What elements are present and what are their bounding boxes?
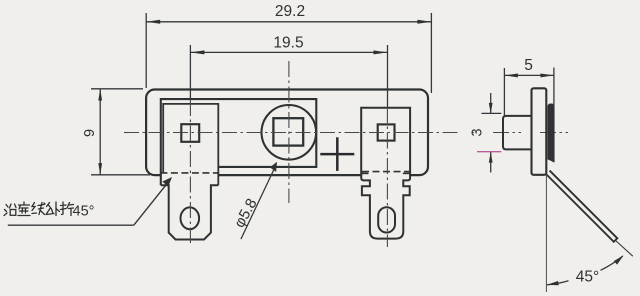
dimension 3 (482, 93, 502, 173)
svg-text:45°: 45° (73, 204, 95, 220)
dimension 29.2 (146, 13, 431, 93)
metal plate (front face) (161, 99, 316, 185)
bushing (503, 116, 532, 149)
side plate (532, 88, 547, 175)
svg-text:3: 3 (470, 128, 486, 136)
erase body bottom edge behind right tab (362, 172, 409, 178)
erase body bottom edge behind left bracket (162, 173, 218, 179)
vertical reference line (545, 175, 547, 292)
right tab oval hole (378, 207, 395, 232)
char: xian (32, 203, 45, 215)
dimension 19.5 (190, 45, 387, 107)
circle vertical center line (288, 61, 290, 203)
center circle (262, 105, 317, 160)
left bracket fold dashed line (160, 172, 219, 174)
plus polarity mark (320, 153, 354, 156)
left tab oval hole (181, 207, 200, 229)
tab direction extension line (616, 241, 633, 256)
right square hole (378, 124, 395, 140)
svg-text:5: 5 (524, 57, 533, 74)
body outline (front view plastic housing) (146, 90, 428, 176)
char: zhe (61, 202, 74, 216)
char: chu (46, 202, 60, 216)
right tab outline (361, 108, 410, 239)
note underline and leader (8, 224, 134, 226)
phi 5.8 leader (241, 166, 276, 239)
right tab vertical center line (386, 107, 388, 247)
svg-text:9: 9 (82, 129, 98, 137)
dimension 5 (504, 68, 554, 116)
center square hole (273, 118, 303, 145)
folded 45deg tab (547, 171, 618, 242)
char: xu (18, 202, 30, 216)
svg-text:45°: 45° (576, 269, 599, 286)
left tab vertical center line (189, 100, 191, 243)
svg-text:19.5: 19.5 (273, 35, 303, 52)
horizontal center line (124, 132, 461, 134)
metal strip edge-on (548, 104, 553, 162)
magenta extension line (477, 151, 501, 153)
svg-text:29.2: 29.2 (275, 3, 305, 20)
chinese note: fold 45 deg at dashed line (4, 202, 74, 216)
45 degree arc with arrows (547, 281, 569, 285)
char: yan (4, 205, 8, 216)
left tab lower outline (161, 185, 219, 239)
dimension 9 (91, 89, 150, 175)
left square hole (181, 124, 199, 142)
right tab fold dashed line (362, 171, 410, 173)
right tab shoulder ticks (361, 172, 368, 174)
left bracket inner outline (163, 104, 218, 185)
